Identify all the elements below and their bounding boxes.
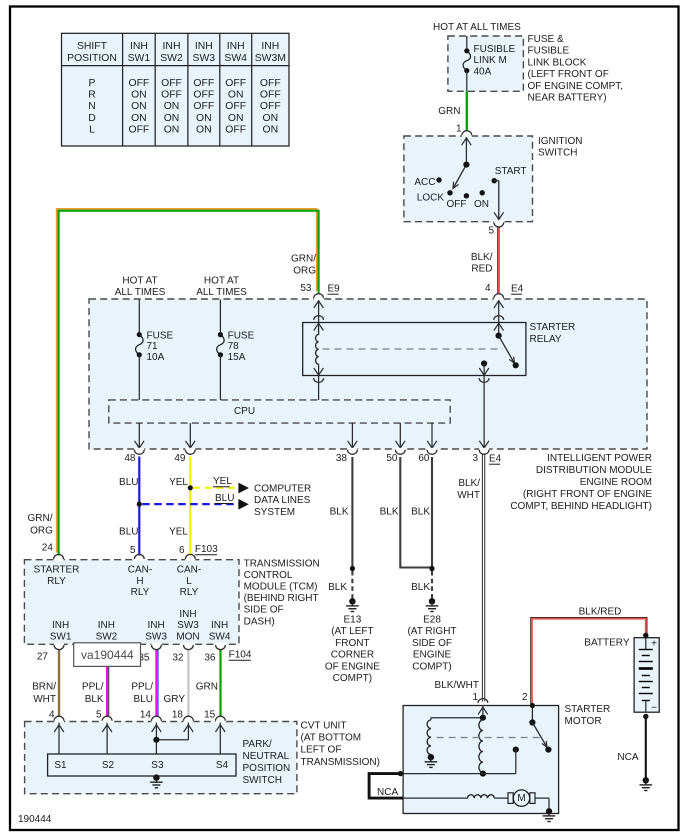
svg-text:49: 49: [174, 453, 186, 464]
svg-text:32: 32: [172, 653, 184, 664]
svg-text:60: 60: [418, 453, 430, 464]
svg-text:1: 1: [472, 692, 478, 703]
svg-text:H: H: [136, 576, 143, 587]
svg-text:ON: ON: [164, 113, 180, 124]
svg-text:YEL: YEL: [169, 527, 188, 538]
svg-text:FUSE &: FUSE &: [528, 34, 564, 45]
svg-text:OFF: OFF: [193, 101, 214, 112]
svg-text:OFF: OFF: [193, 78, 214, 89]
svg-text:NEAR BATTERY): NEAR BATTERY): [528, 93, 607, 104]
svg-text:S1: S1: [54, 760, 67, 771]
svg-text:190444: 190444: [18, 814, 52, 825]
svg-text:48: 48: [124, 453, 136, 464]
svg-text:PPL/: PPL/: [82, 682, 104, 693]
svg-text:FUSE: FUSE: [147, 330, 174, 341]
svg-text:RLY: RLY: [180, 587, 199, 598]
svg-text:GRN: GRN: [196, 682, 218, 693]
svg-text:E13: E13: [344, 615, 362, 626]
svg-text:RED: RED: [471, 264, 492, 275]
svg-text:BRN/: BRN/: [32, 682, 56, 693]
svg-text:SIDE OF: SIDE OF: [244, 605, 284, 616]
svg-text:40A: 40A: [474, 67, 492, 78]
svg-text:BLU: BLU: [215, 493, 234, 504]
svg-text:E28: E28: [423, 615, 441, 626]
svg-text:E4: E4: [489, 454, 502, 465]
svg-text:IGNITION: IGNITION: [538, 136, 582, 147]
svg-text:15: 15: [204, 709, 216, 720]
svg-text:ALL TIMES: ALL TIMES: [115, 287, 166, 298]
svg-text:OFF: OFF: [260, 78, 281, 89]
svg-text:OFF: OFF: [260, 90, 281, 101]
svg-text:CAN-: CAN-: [128, 565, 152, 576]
svg-text:ON: ON: [263, 125, 279, 136]
svg-text:BLK/RED: BLK/RED: [579, 607, 622, 618]
svg-text:COMPT): COMPT): [412, 661, 451, 672]
svg-text:SW1: SW1: [50, 631, 72, 642]
svg-text:OFF: OFF: [161, 90, 182, 101]
svg-text:SW4: SW4: [224, 53, 247, 64]
svg-text:SW3M: SW3M: [255, 53, 286, 64]
svg-text:OFF: OFF: [225, 78, 246, 89]
svg-text:SW1: SW1: [128, 53, 151, 64]
svg-text:5: 5: [488, 226, 494, 237]
svg-text:ON: ON: [164, 101, 180, 112]
svg-text:COMPUTER: COMPUTER: [254, 484, 311, 495]
svg-text:3: 3: [472, 453, 478, 464]
svg-text:GRN/: GRN/: [291, 254, 316, 265]
svg-text:ORG: ORG: [30, 526, 53, 537]
svg-text:DASH): DASH): [244, 616, 275, 627]
svg-text:LEFT OF: LEFT OF: [301, 745, 342, 756]
svg-text:2: 2: [522, 692, 528, 703]
svg-text:HOT AT ALL TIMES: HOT AT ALL TIMES: [433, 22, 521, 33]
svg-text:DISTRIBUTION MODULE: DISTRIBUTION MODULE: [536, 465, 652, 476]
svg-text:INH: INH: [52, 620, 69, 631]
svg-text:INH: INH: [147, 620, 164, 631]
svg-text:SW3: SW3: [177, 620, 199, 631]
svg-text:BLK/WHT: BLK/WHT: [435, 680, 479, 691]
svg-text:MON: MON: [176, 631, 199, 642]
svg-text:CORNER: CORNER: [331, 650, 374, 661]
svg-text:WHT: WHT: [457, 490, 480, 501]
svg-text:53: 53: [300, 283, 312, 294]
svg-text:MOTOR: MOTOR: [565, 716, 602, 727]
svg-text:5: 5: [130, 545, 136, 556]
svg-text:DATA LINES: DATA LINES: [254, 495, 311, 506]
svg-text:COMPT, BEHIND HEADLIGHT): COMPT, BEHIND HEADLIGHT): [510, 501, 652, 512]
svg-text:HOT AT: HOT AT: [204, 276, 239, 287]
svg-text:ON: ON: [131, 101, 147, 112]
svg-text:ON: ON: [131, 90, 147, 101]
svg-text:BLK: BLK: [411, 507, 430, 518]
svg-text:NCA: NCA: [377, 787, 398, 798]
svg-text:S4: S4: [216, 760, 229, 771]
svg-text:N: N: [88, 101, 96, 112]
svg-text:LINK M: LINK M: [474, 55, 507, 66]
svg-text:ON: ON: [474, 199, 489, 210]
svg-text:INH: INH: [163, 41, 181, 52]
svg-text:PPL/: PPL/: [131, 682, 153, 693]
svg-text:24: 24: [42, 543, 54, 554]
svg-text:4: 4: [485, 283, 491, 294]
svg-text:INH: INH: [98, 620, 115, 631]
svg-text:OFF: OFF: [193, 90, 214, 101]
svg-text:E9: E9: [328, 284, 341, 295]
svg-text:SWITCH: SWITCH: [538, 148, 577, 159]
svg-text:BLU: BLU: [119, 527, 138, 538]
svg-text:SWITCH: SWITCH: [243, 775, 282, 786]
svg-text:TRANSMISSION): TRANSMISSION): [301, 757, 380, 768]
svg-text:BLK: BLK: [328, 582, 347, 593]
svg-text:STARTER: STARTER: [530, 322, 576, 333]
svg-text:L: L: [186, 576, 192, 587]
svg-text:(LEFT FRONT OF: (LEFT FRONT OF: [528, 69, 609, 80]
svg-text:OF ENGINE: OF ENGINE: [325, 661, 380, 672]
svg-text:SW2: SW2: [160, 53, 183, 64]
svg-text:(RIGHT FRONT OF ENGINE: (RIGHT FRONT OF ENGINE: [523, 489, 652, 500]
svg-text:F103: F103: [195, 544, 218, 555]
svg-text:SHIFT: SHIFT: [77, 41, 108, 52]
svg-text:SW4: SW4: [209, 631, 231, 642]
svg-text:ENGINE: ENGINE: [413, 650, 452, 661]
svg-text:SW3: SW3: [193, 53, 216, 64]
svg-text:RELAY: RELAY: [530, 334, 562, 345]
svg-text:CONTROL: CONTROL: [244, 570, 293, 581]
svg-text:SW3: SW3: [145, 631, 167, 642]
svg-text:F104: F104: [229, 650, 252, 661]
svg-text:INH: INH: [195, 41, 213, 52]
svg-text:OF ENGINE COMPT,: OF ENGINE COMPT,: [528, 81, 624, 92]
svg-text:5: 5: [96, 709, 102, 720]
svg-text:BLK: BLK: [330, 507, 349, 518]
svg-text:POSITION: POSITION: [67, 53, 117, 64]
svg-text:INH: INH: [130, 41, 148, 52]
svg-text:GRY: GRY: [164, 694, 186, 705]
svg-text:D: D: [88, 113, 96, 124]
svg-text:S2: S2: [102, 760, 115, 771]
svg-text:NEUTRAL: NEUTRAL: [243, 751, 290, 762]
svg-text:PARK/: PARK/: [243, 739, 272, 750]
svg-text:CPU: CPU: [234, 406, 255, 417]
svg-text:78: 78: [228, 341, 240, 352]
svg-text:15A: 15A: [228, 352, 246, 363]
svg-text:ENGINE ROOM: ENGINE ROOM: [580, 477, 652, 488]
svg-text:NCA: NCA: [617, 752, 638, 763]
svg-text:4: 4: [49, 709, 55, 720]
svg-text:SW2: SW2: [96, 631, 118, 642]
svg-text:P: P: [89, 78, 96, 89]
svg-text:SIDE OF: SIDE OF: [412, 638, 452, 649]
svg-text:SYSTEM: SYSTEM: [254, 507, 295, 518]
svg-text:27: 27: [37, 652, 49, 663]
svg-text:BLK: BLK: [411, 582, 430, 593]
svg-text:1: 1: [456, 124, 462, 135]
svg-text:ON: ON: [228, 90, 244, 101]
svg-text:M: M: [517, 793, 525, 804]
svg-text:HOT AT: HOT AT: [122, 276, 157, 287]
svg-text:INH: INH: [227, 41, 245, 52]
svg-text:ON: ON: [196, 125, 212, 136]
svg-text:START: START: [495, 166, 527, 177]
svg-text:FRONT: FRONT: [335, 638, 369, 649]
svg-text:YEL: YEL: [213, 476, 232, 487]
svg-text:ON: ON: [263, 113, 279, 124]
svg-text:WHT: WHT: [33, 694, 56, 705]
svg-text:CVT UNIT: CVT UNIT: [301, 720, 347, 731]
svg-text:BLK/: BLK/: [458, 478, 480, 489]
svg-text:ON: ON: [196, 113, 212, 124]
svg-text:FUSIBLE: FUSIBLE: [474, 44, 516, 55]
svg-text:L: L: [89, 125, 95, 136]
svg-text:36: 36: [204, 653, 216, 664]
svg-text:OFF: OFF: [260, 101, 281, 112]
svg-text:GRN: GRN: [438, 106, 460, 117]
svg-text:(BEHIND RIGHT: (BEHIND RIGHT: [244, 593, 319, 604]
svg-text:INTELLIGENT POWER: INTELLIGENT POWER: [547, 453, 652, 464]
svg-text:ACC: ACC: [414, 177, 435, 188]
svg-text:18: 18: [172, 709, 184, 720]
svg-text:INH: INH: [179, 609, 196, 620]
svg-text:STARTER: STARTER: [565, 704, 611, 715]
svg-text:RLY: RLY: [131, 587, 150, 598]
svg-text:MODULE (TCM): MODULE (TCM): [244, 582, 318, 593]
svg-text:ON: ON: [131, 113, 147, 124]
svg-text:50: 50: [386, 453, 398, 464]
svg-text:OFF: OFF: [161, 78, 182, 89]
svg-text:E4: E4: [511, 284, 524, 295]
svg-text:STARTER: STARTER: [34, 565, 80, 576]
svg-text:10A: 10A: [147, 352, 165, 363]
svg-text:YEL: YEL: [169, 477, 188, 488]
svg-text:BLK: BLK: [380, 507, 399, 518]
svg-text:CAN-: CAN-: [177, 565, 201, 576]
svg-text:(AT RIGHT: (AT RIGHT: [407, 626, 456, 637]
svg-text:GRN/: GRN/: [28, 513, 53, 524]
svg-text:OFF: OFF: [225, 125, 246, 136]
svg-text:BATTERY: BATTERY: [584, 638, 630, 649]
svg-text:BLU: BLU: [134, 694, 153, 705]
svg-text:ORG: ORG: [293, 266, 316, 277]
svg-text:va190444: va190444: [81, 648, 134, 662]
svg-text:ON: ON: [164, 125, 180, 136]
svg-text:TRANSMISSION: TRANSMISSION: [244, 558, 320, 569]
svg-text:−: −: [651, 702, 657, 713]
svg-text:BLK/: BLK/: [471, 252, 493, 263]
svg-text:(AT LEFT: (AT LEFT: [331, 626, 373, 637]
svg-text:LINK BLOCK: LINK BLOCK: [528, 57, 587, 68]
svg-text:R: R: [88, 90, 96, 101]
svg-text:COMPT): COMPT): [333, 673, 372, 684]
svg-text:6: 6: [179, 545, 185, 556]
svg-text:FUSE: FUSE: [228, 330, 255, 341]
svg-text:OFF: OFF: [447, 199, 467, 210]
svg-text:RLY: RLY: [47, 576, 66, 587]
svg-text:38: 38: [336, 453, 348, 464]
svg-text:S3: S3: [151, 760, 164, 771]
svg-text:ON: ON: [228, 113, 244, 124]
svg-text:OFF: OFF: [129, 125, 150, 136]
svg-text:71: 71: [147, 341, 159, 352]
svg-text:POSITION: POSITION: [243, 763, 291, 774]
svg-text:BLU: BLU: [119, 477, 138, 488]
svg-text:LOCK: LOCK: [417, 193, 445, 204]
svg-text:ALL TIMES: ALL TIMES: [196, 287, 247, 298]
svg-text:14: 14: [140, 709, 152, 720]
svg-text:INH: INH: [261, 41, 279, 52]
svg-text:FUSIBLE: FUSIBLE: [528, 46, 570, 57]
svg-text:OFF: OFF: [129, 78, 150, 89]
svg-text:INH: INH: [211, 620, 228, 631]
svg-text:+: +: [651, 639, 657, 650]
svg-text:(AT BOTTOM: (AT BOTTOM: [301, 733, 362, 744]
svg-text:OFF: OFF: [225, 101, 246, 112]
svg-text:BLK: BLK: [85, 694, 104, 705]
